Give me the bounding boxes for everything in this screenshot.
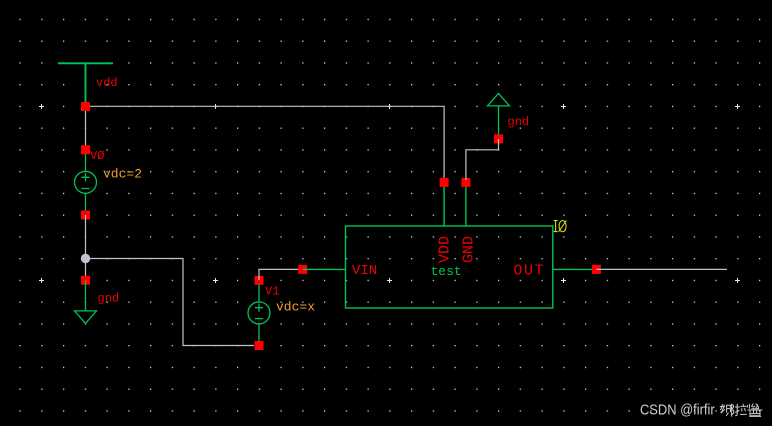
node vdd pin	[81, 102, 90, 111]
voltage source V0	[75, 150, 97, 215]
pin V0 plus	[81, 145, 90, 154]
pin GND of I0	[461, 178, 470, 187]
ground symbol upper rotated	[488, 93, 510, 138]
svg-text:test: test	[431, 264, 462, 279]
svg-text:gnd: gnd	[508, 115, 530, 129]
vdd supply symbol	[58, 63, 113, 104]
svg-text:vdc=2: vdc=2	[103, 167, 142, 182]
pin OUT wire node	[592, 265, 601, 274]
svg-text:OUT: OUT	[514, 263, 546, 280]
wire V1 plus to VIN	[259, 269, 300, 280]
svg-text:vdd: vdd	[96, 76, 118, 90]
wire V0 to junction to gnd	[85, 215, 87, 280]
wire OUT	[596, 268, 727, 270]
svg-text:VIN: VIN	[352, 263, 377, 279]
wire gnd to GND pin	[466, 139, 499, 180]
svg-text:VDD: VDD	[437, 236, 454, 263]
wire vdd rail	[86, 106, 445, 180]
pin V0 minus	[81, 211, 90, 220]
node junction dot	[81, 254, 90, 263]
ground symbol lower	[75, 280, 97, 323]
pin VDD of I0	[440, 178, 449, 187]
svg-text:GND: GND	[460, 236, 477, 263]
pin VIN wire node	[298, 265, 307, 274]
svg-text:gnd: gnd	[98, 292, 120, 306]
wire junction to V1 minus	[86, 259, 255, 346]
instance I0 block test	[303, 182, 597, 308]
svg-text:vdc=x: vdc=x	[276, 300, 315, 315]
watermark CSDN	[640, 401, 715, 418]
pin V1 minus	[255, 341, 264, 350]
svg-text:V1: V1	[265, 285, 279, 299]
watermark CJK glyphs	[720, 404, 763, 417]
svg-text:CSDN @firfir: CSDN @firfir	[640, 401, 715, 418]
svg-text:VØ: VØ	[90, 149, 104, 163]
wire vdd to V0	[85, 107, 87, 148]
pin V1 plus	[255, 276, 264, 285]
pin gnd	[81, 276, 90, 285]
label instance I0	[554, 220, 567, 231]
voltage source V1	[248, 280, 270, 345]
pin gnd upper	[494, 134, 503, 143]
